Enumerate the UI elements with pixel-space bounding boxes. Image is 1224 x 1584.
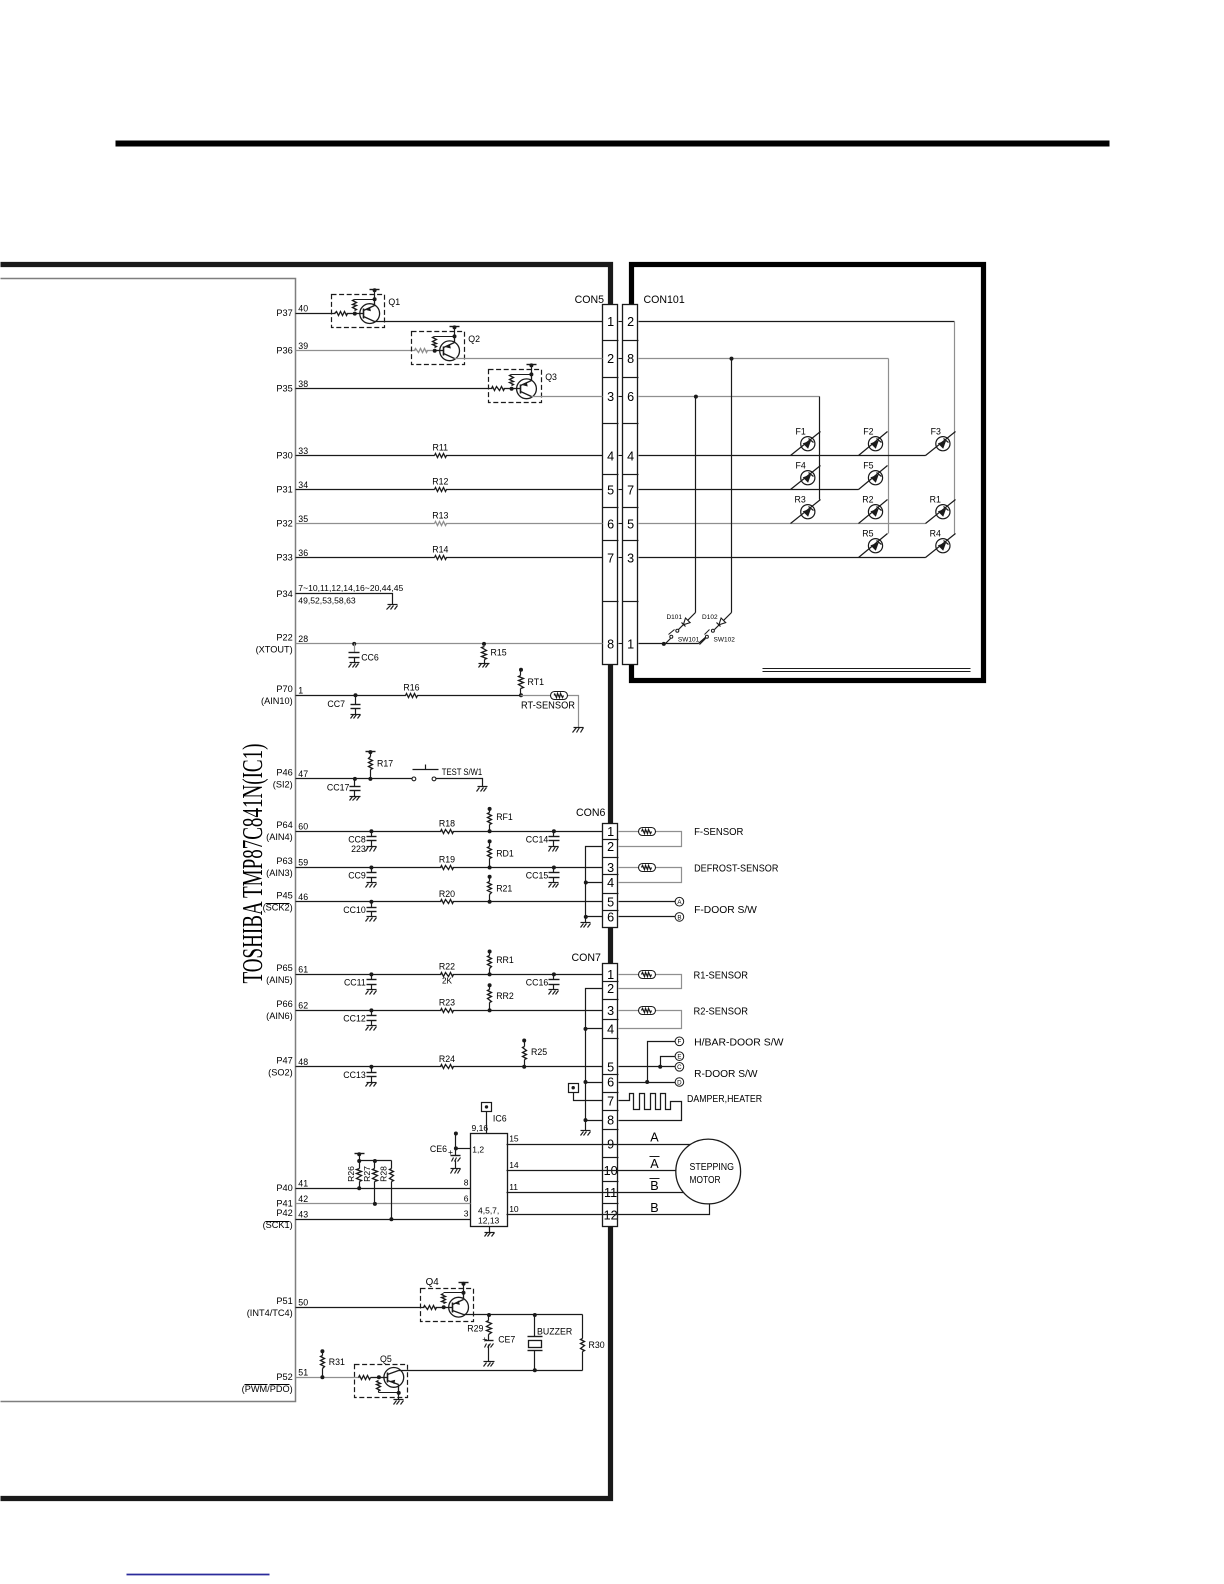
svg-text:4: 4 bbox=[607, 876, 614, 890]
svg-text:R1-SENSOR: R1-SENSOR bbox=[694, 969, 749, 981]
svg-text:4: 4 bbox=[627, 450, 634, 464]
wire LED column x=819.9 bbox=[819, 397, 821, 500]
svg-text:(AIN10): (AIN10) bbox=[261, 696, 293, 706]
svg-text:47: 47 bbox=[298, 769, 308, 779]
resistor R19 bbox=[441, 864, 452, 871]
connector key terminal (square) above IC6 bbox=[482, 1103, 492, 1112]
svg-text:RR2: RR2 bbox=[496, 991, 514, 1001]
IC U-IC6 box bbox=[471, 1134, 508, 1227]
wire P42 to IC6 pin3 bbox=[296, 1219, 471, 1221]
svg-text:P65: P65 bbox=[276, 963, 292, 973]
wire key terminal to IC6 pin 9,16 bbox=[486, 1112, 488, 1134]
IC1 block outline (gray) bbox=[1, 279, 296, 1402]
STEPPING MOTOR bbox=[676, 1139, 741, 1204]
svg-text:F3: F3 bbox=[931, 426, 941, 436]
svg-text:CC7: CC7 bbox=[327, 699, 345, 709]
svg-text:P34: P34 bbox=[276, 589, 292, 599]
svg-text:F5: F5 bbox=[863, 460, 873, 470]
svg-text:R27: R27 bbox=[362, 1166, 372, 1182]
svg-text:R5: R5 bbox=[862, 528, 873, 538]
svg-text:12: 12 bbox=[604, 1208, 618, 1222]
svg-text:CC14: CC14 bbox=[526, 834, 549, 844]
svg-text:5: 5 bbox=[607, 484, 614, 498]
svg-text:TEST S/W1: TEST S/W1 bbox=[442, 767, 482, 777]
capacitor CC14 bbox=[552, 829, 556, 833]
wire P64 to CON6 pin1 bbox=[296, 831, 603, 833]
svg-text:6: 6 bbox=[607, 1076, 614, 1090]
svg-text:Q5: Q5 bbox=[380, 1354, 392, 1364]
svg-text:(PWM/PDO): (PWM/PDO) bbox=[242, 1384, 293, 1394]
svg-text:10: 10 bbox=[509, 1204, 519, 1214]
resistor R24 bbox=[441, 1063, 452, 1070]
wire P63 to CON6 pin3 bbox=[296, 867, 603, 869]
svg-text:10: 10 bbox=[604, 1164, 618, 1178]
svg-text:RD1: RD1 bbox=[496, 848, 514, 858]
ground (TEST S/W1) bbox=[478, 786, 488, 788]
svg-text:DAMPER,HEATER: DAMPER,HEATER bbox=[687, 1093, 762, 1105]
svg-text:2K: 2K bbox=[442, 977, 453, 986]
thermistor F-SENSOR bbox=[639, 828, 656, 836]
LED R5 bbox=[859, 534, 888, 558]
svg-text:14: 14 bbox=[509, 1160, 519, 1170]
svg-text:R15: R15 bbox=[491, 647, 507, 657]
svg-text:62: 62 bbox=[298, 1001, 308, 1011]
resistor R27 bbox=[373, 1169, 378, 1182]
svg-text:R18: R18 bbox=[439, 818, 455, 828]
svg-text:R22: R22 bbox=[439, 962, 455, 972]
wire P30 to CON5 with resistor R11 bbox=[296, 455, 603, 457]
resistor R26 bbox=[357, 1169, 362, 1182]
LED F3 bbox=[926, 432, 956, 456]
svg-text:5: 5 bbox=[607, 1060, 614, 1074]
resistor R21 pull-up bbox=[488, 875, 492, 879]
ground (R15) bbox=[479, 663, 490, 665]
svg-text:R26: R26 bbox=[346, 1166, 356, 1182]
wire P41 to IC6 pin6 bbox=[296, 1203, 471, 1205]
svg-text:41: 41 bbox=[298, 1178, 308, 1188]
resistor RR2 pull-up bbox=[488, 983, 492, 987]
wire R2-SENSOR loop bbox=[619, 1010, 639, 1012]
svg-text:6: 6 bbox=[627, 390, 634, 404]
svg-text:6: 6 bbox=[607, 518, 614, 532]
footer link rule bbox=[127, 1574, 270, 1576]
ground (Q5) bbox=[394, 1399, 404, 1401]
svg-text:CC9: CC9 bbox=[348, 871, 366, 881]
ground (CE6) bbox=[451, 1168, 461, 1170]
svg-text:D102: D102 bbox=[702, 614, 718, 621]
svg-text:RT1: RT1 bbox=[528, 677, 545, 687]
svg-text:R-DOOR S/W: R-DOOR S/W bbox=[694, 1068, 757, 1080]
svg-text:51: 51 bbox=[298, 1367, 308, 1377]
wire P40 to IC6 pin8 bbox=[296, 1188, 471, 1190]
svg-text:F2: F2 bbox=[863, 426, 873, 436]
LED F1 bbox=[791, 432, 821, 456]
capacitor CC16 bbox=[552, 972, 556, 976]
resistor R23 bbox=[441, 1007, 452, 1014]
resistor R14 bbox=[435, 556, 447, 560]
ground (P34) bbox=[388, 604, 398, 606]
svg-text:1: 1 bbox=[298, 685, 303, 695]
svg-text:1: 1 bbox=[627, 638, 634, 652]
svg-text:P33: P33 bbox=[276, 553, 292, 563]
connector CON7 bbox=[603, 964, 618, 1227]
wire buzzer return bus to Q5 collector bbox=[399, 1370, 583, 1372]
LED F5 bbox=[859, 466, 888, 490]
CON101 bottom rule (double line) bbox=[763, 668, 971, 670]
svg-text:CE6: CE6 bbox=[430, 1144, 447, 1154]
ground (IC6) bbox=[489, 1227, 491, 1233]
wire H/BAR-DOOR switch branch to contact F bbox=[648, 1042, 676, 1083]
connector CON101 bbox=[623, 305, 638, 665]
svg-text:38: 38 bbox=[298, 379, 308, 389]
svg-text:F: F bbox=[678, 1039, 682, 1046]
capacitor CC17 bbox=[353, 777, 357, 781]
svg-text:P35: P35 bbox=[276, 383, 292, 393]
svg-text:(INT4/TC4): (INT4/TC4) bbox=[247, 1308, 293, 1318]
svg-text:39: 39 bbox=[298, 341, 308, 351]
wire P70 row bbox=[296, 695, 521, 697]
svg-text:F-SENSOR: F-SENSOR bbox=[694, 826, 744, 838]
svg-text:CC11: CC11 bbox=[344, 978, 366, 988]
svg-text:11: 11 bbox=[604, 1186, 617, 1200]
key branch D101/SW101 column from pin6 bbox=[695, 397, 697, 613]
wire CON101 pin6 row (LED column F1/F4/R3 feed) bbox=[639, 396, 820, 398]
svg-text:R2: R2 bbox=[862, 494, 873, 504]
wire P34 to ground bbox=[296, 594, 393, 605]
transistor Q4 (with base/bias resistors, dashed outline) bbox=[421, 1289, 474, 1322]
svg-text:F1: F1 bbox=[796, 426, 806, 436]
svg-text:Q1: Q1 bbox=[388, 297, 400, 307]
ground (RT-SENSOR) bbox=[574, 727, 584, 729]
svg-text:CC10: CC10 bbox=[343, 905, 366, 915]
svg-text:TOSHIBA TMP87C841N(IC1): TOSHIBA TMP87C841N(IC1) bbox=[238, 744, 269, 984]
thermistor R1-SENSOR bbox=[639, 971, 656, 979]
LED R2 bbox=[859, 500, 888, 524]
wire P31 to CON5 with resistor R12 bbox=[296, 489, 603, 491]
svg-text:CE7: CE7 bbox=[498, 1335, 515, 1345]
svg-text:R24: R24 bbox=[439, 1054, 455, 1064]
capacitor CC8 (223) bbox=[369, 829, 373, 833]
svg-text:Q2: Q2 bbox=[468, 334, 480, 344]
resistor RD1 pull-up bbox=[488, 839, 492, 843]
buzzer BZ1 bbox=[534, 1315, 536, 1337]
CON5-CON101 mating ticks bbox=[619, 321, 623, 323]
transistor Q1 (with base/bias resistors, dashed outline) bbox=[332, 295, 385, 328]
svg-text:1,2: 1,2 bbox=[472, 1145, 484, 1155]
wire Q1 collector to CON5 pin1 bbox=[375, 321, 603, 323]
svg-text:B: B bbox=[650, 1179, 658, 1193]
svg-text:7: 7 bbox=[627, 484, 634, 498]
resistor R16 bbox=[406, 692, 417, 699]
ground (CC6) bbox=[350, 662, 360, 664]
ground (CC7) bbox=[351, 714, 361, 716]
svg-text:3: 3 bbox=[627, 552, 634, 566]
wire TEST S/W1 to ground bbox=[436, 779, 483, 787]
svg-text:D: D bbox=[677, 1079, 682, 1086]
wire P33 to CON5 with resistor R14 bbox=[296, 557, 603, 559]
svg-text:R14: R14 bbox=[432, 545, 448, 555]
svg-text:R17: R17 bbox=[377, 759, 393, 769]
svg-text:RR1: RR1 bbox=[496, 955, 514, 965]
svg-text:R12: R12 bbox=[432, 477, 448, 487]
svg-text:3: 3 bbox=[607, 390, 614, 404]
svg-text:2: 2 bbox=[627, 315, 634, 329]
svg-text:STEPPING: STEPPING bbox=[690, 1162, 735, 1173]
svg-text:CON5: CON5 bbox=[575, 294, 605, 306]
resistor R31 pull-up bbox=[320, 1349, 324, 1353]
wire CON6 pin2 ground rail bbox=[586, 847, 603, 923]
LED R4 bbox=[926, 534, 956, 558]
wire key branch diagonal upper segment bbox=[679, 613, 696, 630]
wire F-SENSOR loop bbox=[619, 831, 639, 833]
capacitor CC9 bbox=[369, 866, 373, 870]
svg-text:12,13: 12,13 bbox=[478, 1216, 500, 1226]
svg-text:8: 8 bbox=[607, 638, 614, 652]
resistor R17 pull-up bbox=[366, 751, 376, 753]
wire P36 to Q2 bbox=[296, 350, 416, 352]
svg-text:Q3: Q3 bbox=[545, 372, 557, 382]
svg-text:35: 35 bbox=[298, 514, 308, 524]
svg-text:R1: R1 bbox=[930, 494, 941, 504]
svg-text:RT-SENSOR: RT-SENSOR bbox=[521, 701, 575, 712]
capacitor CC10 bbox=[369, 900, 373, 904]
LED F2 bbox=[859, 432, 888, 456]
svg-text:7~10,11,12,14,16~20,44,45: 7~10,11,12,14,16~20,44,45 bbox=[298, 583, 403, 593]
svg-text:P51: P51 bbox=[276, 1296, 292, 1306]
svg-text:1: 1 bbox=[607, 315, 614, 329]
svg-text:59: 59 bbox=[298, 858, 308, 868]
svg-text:P63: P63 bbox=[276, 856, 292, 866]
svg-text:P22: P22 bbox=[276, 633, 292, 643]
svg-text:CON7: CON7 bbox=[572, 952, 602, 964]
capacitor CC11 bbox=[369, 972, 373, 976]
wire IC6 pin15 to CON7 pin9 (phase A) bbox=[507, 1144, 691, 1146]
diode D101 bbox=[683, 618, 690, 625]
svg-text:(XTOUT): (XTOUT) bbox=[256, 645, 293, 655]
wire LED column x=955 bbox=[954, 322, 956, 534]
resistor R29 bbox=[488, 1315, 490, 1321]
resistor R20 bbox=[441, 898, 452, 905]
svg-text:CC15: CC15 bbox=[526, 871, 549, 881]
svg-text:R4: R4 bbox=[930, 528, 941, 538]
wire IC6 pin14 to CON7 pin10 (phase A-bar) bbox=[507, 1170, 676, 1172]
svg-text:46: 46 bbox=[298, 892, 308, 902]
svg-text:40: 40 bbox=[298, 304, 308, 314]
wire P47 to CON7 pin5 bbox=[296, 1066, 603, 1068]
svg-text:P31: P31 bbox=[276, 485, 292, 495]
capacitor CE7 (electrolytic) bbox=[488, 1335, 490, 1341]
svg-text:48: 48 bbox=[298, 1057, 308, 1067]
svg-text:P46: P46 bbox=[276, 768, 292, 778]
svg-text:P40: P40 bbox=[276, 1183, 292, 1193]
wire LED column x=888.5 bbox=[888, 359, 890, 534]
svg-text:CC6: CC6 bbox=[361, 652, 379, 662]
svg-text:R28: R28 bbox=[378, 1166, 388, 1182]
svg-text:2: 2 bbox=[607, 982, 614, 996]
svg-text:CC16: CC16 bbox=[526, 978, 549, 988]
svg-text:R2-SENSOR: R2-SENSOR bbox=[694, 1005, 749, 1017]
wire CON7 pin6 to contact D bbox=[619, 1082, 676, 1084]
ground (CC17) bbox=[350, 796, 361, 798]
svg-text:36: 36 bbox=[298, 548, 308, 558]
svg-text:P45: P45 bbox=[276, 890, 292, 900]
svg-text:B: B bbox=[650, 1201, 658, 1215]
svg-text:2: 2 bbox=[607, 840, 614, 854]
LED R1 bbox=[926, 500, 956, 524]
wire P45 to CON6 pin5 bbox=[296, 901, 603, 903]
top title separator bar bbox=[116, 141, 1110, 147]
wire Q5 emitter to ground bbox=[398, 1393, 400, 1400]
wire Q2 collector to CON5 pin2 bbox=[455, 358, 603, 360]
svg-text:3: 3 bbox=[464, 1209, 469, 1219]
wire CON101 pin4 row (F row) bbox=[639, 455, 926, 457]
svg-text:P32: P32 bbox=[276, 519, 292, 529]
switch SW101 bbox=[676, 629, 679, 632]
wire RT1 node to RT-SENSOR and ground bbox=[521, 695, 551, 697]
svg-text:CON6: CON6 bbox=[576, 807, 606, 819]
wire CON7 pin2 ground rail bbox=[586, 989, 603, 1131]
svg-text:R13: R13 bbox=[432, 511, 448, 521]
wire CON101 pin8 row (LED column F2/F5/R2/R5 feed) bbox=[639, 358, 889, 360]
wire IC6 pin10 to CON7 pin12 (phase B) bbox=[507, 1204, 710, 1215]
svg-text:P30: P30 bbox=[276, 451, 292, 461]
contact B bbox=[675, 913, 684, 922]
wire P32 to CON5 with resistor R13 bbox=[296, 523, 603, 525]
thermistor RT-SENSOR bbox=[551, 692, 568, 700]
wire CON101 pin5 row (R row) bbox=[639, 523, 926, 525]
svg-text:C: C bbox=[677, 1064, 682, 1071]
svg-text:P37: P37 bbox=[276, 308, 292, 318]
svg-text:5: 5 bbox=[627, 518, 634, 532]
wire Q4 collector output bus bbox=[464, 1314, 583, 1316]
svg-text:60: 60 bbox=[298, 821, 308, 831]
svg-text:(AIN6): (AIN6) bbox=[266, 1011, 293, 1021]
svg-text:P52: P52 bbox=[276, 1372, 292, 1382]
svg-text:CC12: CC12 bbox=[343, 1014, 366, 1024]
switch SW102 bbox=[711, 629, 714, 632]
svg-text:223: 223 bbox=[351, 844, 366, 854]
display board outline CON101 block (thick) bbox=[632, 265, 984, 681]
svg-text:P36: P36 bbox=[276, 345, 292, 355]
svg-text:2: 2 bbox=[607, 352, 614, 366]
wire P22 to CON5 pin8 bbox=[296, 643, 603, 645]
svg-text:61: 61 bbox=[298, 965, 308, 975]
svg-text:33: 33 bbox=[298, 446, 308, 456]
wire P51 to Q4 bbox=[296, 1307, 425, 1309]
contact F bbox=[675, 1037, 684, 1046]
wire CON101 pin3 row (R5/R4 row) bbox=[639, 557, 926, 559]
wire CON6 pin5 to F-DOOR S/W contact A bbox=[619, 901, 676, 903]
svg-text:Q4: Q4 bbox=[426, 1277, 440, 1288]
svg-text:(SO2): (SO2) bbox=[268, 1067, 293, 1077]
svg-text:3: 3 bbox=[607, 1004, 614, 1018]
svg-text:43: 43 bbox=[298, 1209, 308, 1219]
svg-text:8: 8 bbox=[464, 1178, 469, 1188]
resistor R22 2K bbox=[441, 971, 452, 978]
svg-text:4: 4 bbox=[607, 1023, 614, 1037]
capacitor CC12 bbox=[369, 1008, 373, 1012]
key branch D102/SW102 column from pin8 bbox=[731, 359, 733, 613]
resistor R28 bbox=[390, 1169, 394, 1182]
svg-text:(AIN3): (AIN3) bbox=[266, 868, 293, 878]
connector key terminal (square) at CON7 pin7 bbox=[569, 1084, 579, 1093]
svg-text:42: 42 bbox=[298, 1194, 308, 1204]
LED R3 bbox=[791, 500, 821, 524]
svg-text:A: A bbox=[650, 1131, 659, 1145]
svg-text:F4: F4 bbox=[796, 460, 806, 470]
svg-text:1: 1 bbox=[607, 968, 614, 982]
thermistor RT1 pull-up bbox=[519, 668, 523, 672]
svg-text:IC6: IC6 bbox=[493, 1114, 507, 1124]
wire CON6 pin6 to F-DOOR S/W contact B bbox=[619, 916, 676, 918]
resistor R18 bbox=[441, 828, 452, 835]
resistor R12 bbox=[435, 488, 447, 492]
capacitor CC7 bbox=[354, 693, 358, 697]
wire P37 to Q1 bbox=[296, 313, 336, 315]
thermistor DEFROST-SENSOR bbox=[639, 864, 656, 872]
svg-text:6: 6 bbox=[464, 1193, 469, 1203]
wire CON7 pin5 to contact C bbox=[619, 1066, 676, 1068]
svg-text:CON101: CON101 bbox=[644, 294, 685, 306]
svg-text:RF1: RF1 bbox=[496, 812, 513, 822]
svg-text:3: 3 bbox=[607, 861, 614, 875]
svg-text:P47: P47 bbox=[276, 1055, 292, 1065]
svg-text:28: 28 bbox=[298, 634, 308, 644]
svg-text:R31: R31 bbox=[329, 1357, 345, 1367]
svg-text:R20: R20 bbox=[439, 889, 455, 899]
svg-text:D101: D101 bbox=[666, 614, 682, 621]
wire P52 to Q5 bbox=[296, 1377, 361, 1379]
contact A bbox=[675, 897, 684, 906]
wire key branch diagonal upper segment bbox=[715, 613, 732, 630]
svg-text:(SI2): (SI2) bbox=[273, 780, 293, 790]
wire R1-SENSOR loop bbox=[619, 974, 639, 976]
resistor RR1 pull-up bbox=[488, 950, 492, 954]
svg-text:R11: R11 bbox=[433, 443, 449, 453]
transistor Q2 (with base/bias resistors, dashed outline) bbox=[412, 332, 465, 365]
connector CON5 bbox=[603, 305, 618, 665]
svg-text:MOTOR: MOTOR bbox=[690, 1175, 721, 1186]
wire P35 to Q3 bbox=[296, 388, 493, 390]
transistor Q3 (with base/bias resistors, dashed outline) bbox=[489, 370, 542, 403]
svg-text:CC17: CC17 bbox=[327, 782, 350, 792]
svg-text:15: 15 bbox=[509, 1134, 519, 1144]
wire P65 to CON7 pin1 bbox=[296, 974, 603, 976]
svg-text:R19: R19 bbox=[439, 855, 455, 865]
svg-text:R30: R30 bbox=[589, 1340, 605, 1350]
resistor R11 bbox=[435, 454, 447, 458]
svg-text:7: 7 bbox=[607, 1094, 614, 1108]
svg-text:R16: R16 bbox=[403, 683, 419, 693]
wire branch to contact E bbox=[661, 1057, 676, 1067]
svg-text:P66: P66 bbox=[276, 999, 292, 1009]
resistor R30 bbox=[582, 1315, 584, 1339]
svg-text:P42: P42 bbox=[276, 1208, 292, 1218]
thermistor R2-SENSOR bbox=[639, 1007, 656, 1015]
svg-text:P64: P64 bbox=[276, 820, 292, 830]
contact C bbox=[675, 1063, 684, 1072]
svg-text:B: B bbox=[677, 914, 681, 921]
svg-text:CC13: CC13 bbox=[343, 1070, 366, 1080]
svg-text:SW101: SW101 bbox=[678, 636, 700, 643]
wire CON101 pin1 row bbox=[639, 643, 699, 645]
svg-text:8: 8 bbox=[607, 1114, 614, 1128]
svg-text:E: E bbox=[677, 1054, 681, 1061]
capacitor CE6 (electrolytic) on IC6 supply bbox=[454, 1132, 458, 1136]
svg-text:A: A bbox=[650, 1157, 659, 1171]
svg-text:34: 34 bbox=[298, 480, 308, 490]
switch TEST S/W1 bbox=[412, 777, 416, 781]
